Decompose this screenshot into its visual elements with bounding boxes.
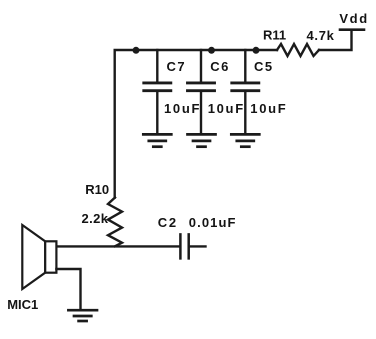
svg-text:C7: C7 (167, 59, 187, 74)
svg-text:MIC1: MIC1 (7, 297, 38, 312)
svg-text:4.7k: 4.7k (307, 28, 335, 43)
svg-text:R11: R11 (263, 28, 286, 43)
svg-text:2.2k: 2.2k (82, 211, 109, 226)
svg-text:10uF: 10uF (164, 101, 201, 116)
svg-text:C2: C2 (158, 215, 178, 230)
svg-text:10uF: 10uF (250, 101, 287, 116)
svg-text:0.01uF: 0.01uF (189, 215, 237, 230)
svg-text:C5: C5 (254, 59, 274, 74)
svg-text:10uF: 10uF (208, 101, 245, 116)
svg-text:Vdd: Vdd (339, 11, 368, 26)
svg-text:C6: C6 (210, 59, 230, 74)
svg-text:R10: R10 (85, 182, 109, 197)
